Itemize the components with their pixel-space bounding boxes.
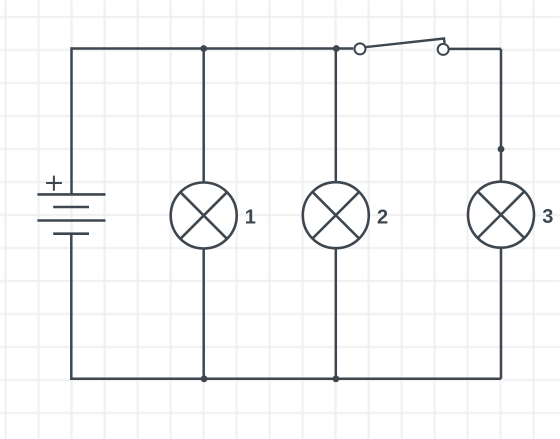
wire lamp 2 bottom branch bbox=[335, 248, 338, 378]
wire lamp 1 bottom branch bbox=[202, 249, 205, 379]
wire lamp 2 top branch bbox=[335, 49, 338, 183]
wire bottom rail bbox=[72, 378, 502, 381]
switch S1 left contact bbox=[355, 43, 366, 54]
junction node top lamp2 bbox=[333, 45, 340, 52]
wire lamp 1 top branch bbox=[202, 49, 205, 183]
wire left rail battery top bbox=[70, 47, 73, 194]
lamp L1 bbox=[171, 183, 237, 249]
junction node bottom lamp1 bbox=[201, 375, 208, 382]
svg-text:2: 2 bbox=[377, 207, 388, 229]
wire from switch to top-right corner bbox=[449, 48, 501, 51]
switch S1 open blade bbox=[366, 39, 445, 48]
svg-text:3: 3 bbox=[542, 206, 553, 228]
wire left rail battery bottom bbox=[70, 234, 73, 380]
wire lamp 3 to bottom rail bbox=[500, 248, 503, 379]
wire top rail from battery to switch bbox=[72, 47, 354, 50]
switch S1 right contact bbox=[438, 44, 449, 55]
junction node top lamp1 bbox=[200, 45, 207, 52]
lamp L3 bbox=[468, 182, 534, 248]
battery plus label bbox=[46, 176, 62, 191]
svg-text:1: 1 bbox=[245, 207, 256, 229]
lamp L2 bbox=[303, 182, 369, 248]
wire right rail down to lamp 3 bbox=[500, 49, 503, 182]
junction node right rail bbox=[498, 146, 505, 153]
junction node bottom lamp2 bbox=[333, 375, 340, 382]
battery B1 bbox=[37, 194, 105, 233]
